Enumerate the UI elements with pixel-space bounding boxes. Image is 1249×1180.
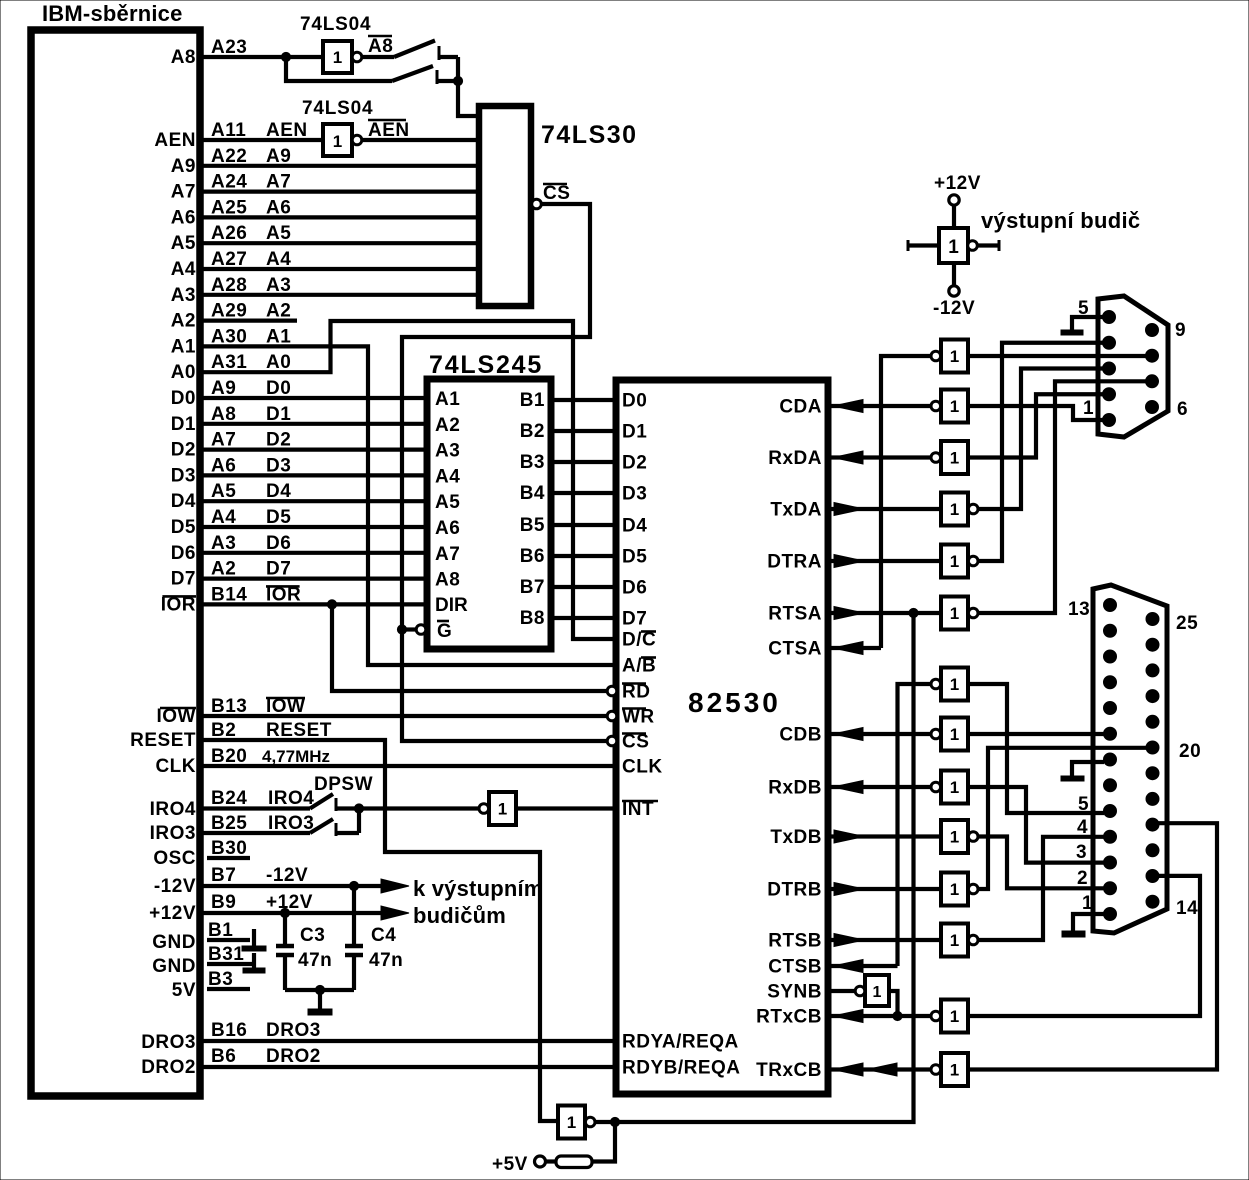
wire data from bus bbox=[203, 499, 427, 503]
wire data from bus bbox=[203, 525, 427, 529]
pin 14 DB25 bbox=[1146, 895, 1159, 908]
wire A8 from bus to inverter bbox=[203, 55, 323, 59]
wire TxDA driver to DB9 pin3 bbox=[978, 369, 1105, 510]
pin 18 DB25 bbox=[1146, 792, 1159, 805]
svg-text:74LS04: 74LS04 bbox=[302, 98, 373, 119]
label 6 bbox=[1177, 399, 1188, 420]
wire switch to 74LS30 top input bbox=[458, 57, 479, 116]
driver D11 (TxDB) bbox=[941, 820, 978, 853]
svg-text:D6: D6 bbox=[622, 578, 647, 599]
pin A/B of 82530 bbox=[622, 656, 656, 677]
driver D9 (CDB) bbox=[931, 718, 968, 751]
wire TxDB output with arrow bbox=[828, 830, 941, 843]
svg-text:47n: 47n bbox=[369, 950, 403, 971]
wire CDA input with arrow bbox=[828, 400, 930, 413]
pin row A5 bbox=[171, 223, 292, 254]
wire DRQ2 to RDYB bbox=[203, 1065, 616, 1069]
svg-text:B2: B2 bbox=[520, 421, 545, 442]
pin 1 DB25 bbox=[1104, 908, 1117, 921]
pin 13 DB25 bbox=[1104, 599, 1117, 612]
ground symbol near B31 bbox=[243, 953, 265, 973]
svg-text:D4: D4 bbox=[171, 491, 196, 512]
pin 9 DB25 bbox=[1104, 702, 1117, 715]
svg-text:A2: A2 bbox=[211, 559, 236, 580]
wire address input to 74LS30 bbox=[203, 241, 479, 245]
svg-text:výstupní budič: výstupní budič bbox=[981, 208, 1140, 233]
svg-text:B1: B1 bbox=[520, 390, 545, 411]
wire capacitor common to ground bbox=[285, 985, 354, 1015]
pin 15 DB25 bbox=[1146, 870, 1159, 883]
74LS04 inverter U1 (A8) bbox=[300, 14, 371, 73]
label 14 bbox=[1176, 898, 1198, 919]
driver U7 (bottom) bbox=[558, 1106, 595, 1139]
74LS04 inverter U2 (AEN) bbox=[302, 98, 373, 156]
svg-text:A4: A4 bbox=[266, 249, 291, 270]
svg-text:DTRA: DTRA bbox=[767, 552, 822, 573]
svg-text:20: 20 bbox=[1179, 741, 1201, 762]
svg-text:+12V: +12V bbox=[266, 892, 313, 913]
svg-text:D4: D4 bbox=[266, 481, 291, 502]
wire address input to 74LS30 bbox=[203, 215, 479, 219]
svg-text:A11: A11 bbox=[211, 120, 246, 141]
svg-text:1: 1 bbox=[950, 880, 959, 899]
wire CDA driver to DB9 pin1 bbox=[968, 406, 1105, 420]
svg-text:B31: B31 bbox=[208, 944, 244, 965]
svg-text:5V: 5V bbox=[172, 980, 196, 1001]
svg-text:DPSW: DPSW bbox=[314, 774, 373, 795]
pin row OSC (B30 stub) bbox=[153, 838, 250, 869]
svg-text:D5: D5 bbox=[171, 517, 196, 538]
svg-text:TxDB: TxDB bbox=[770, 827, 822, 848]
wire DRQ3 to RDYA bbox=[203, 1039, 616, 1043]
svg-text:A3: A3 bbox=[435, 441, 460, 462]
label pin 1 DB25 bbox=[1082, 893, 1093, 914]
wire RxDA driver to DB9 pin2 bbox=[968, 394, 1105, 457]
svg-text:A5: A5 bbox=[266, 223, 291, 244]
wire data from bus bbox=[203, 422, 427, 426]
svg-text:D5: D5 bbox=[622, 547, 647, 568]
svg-text:D6: D6 bbox=[266, 533, 291, 554]
pin D3 of 82530 bbox=[622, 484, 647, 505]
svg-text:A7: A7 bbox=[171, 182, 196, 203]
output bubble CS bbox=[532, 199, 542, 209]
wire CDB input with arrow bbox=[828, 728, 930, 741]
pin WR of 82530 bbox=[622, 707, 655, 728]
pin CDB of 82530 bbox=[779, 725, 822, 746]
driver D12 (DTRB) bbox=[941, 873, 978, 906]
svg-text:C4: C4 bbox=[371, 925, 396, 946]
pin row D3 bbox=[171, 455, 292, 486]
svg-text:A9: A9 bbox=[211, 378, 236, 399]
wire CDB driver to DB25 pin8 bbox=[968, 732, 1104, 736]
svg-text:CS: CS bbox=[543, 183, 570, 204]
svg-text:A9: A9 bbox=[171, 156, 196, 177]
svg-text:RTxCB: RTxCB bbox=[756, 1007, 822, 1028]
svg-text:A1: A1 bbox=[435, 389, 460, 410]
svg-text:A2: A2 bbox=[435, 415, 460, 436]
label 25 bbox=[1176, 613, 1198, 634]
wire CTSA input with arrow bbox=[828, 642, 881, 655]
svg-text:25: 25 bbox=[1176, 613, 1198, 634]
svg-text:1: 1 bbox=[950, 1007, 959, 1026]
wire RTSA output with arrow bbox=[828, 607, 941, 620]
pin 9 DB9 bbox=[1146, 324, 1159, 337]
pin 2 DB9 bbox=[1103, 388, 1116, 401]
svg-text:DRO2: DRO2 bbox=[141, 1057, 196, 1078]
label 13 bbox=[1068, 599, 1090, 620]
pin row A2 bbox=[171, 301, 292, 332]
svg-text:A0: A0 bbox=[171, 362, 196, 383]
svg-text:D4: D4 bbox=[622, 516, 647, 537]
wire RxDB input with arrow bbox=[828, 781, 930, 794]
svg-text:A31: A31 bbox=[211, 352, 247, 373]
svg-text:1: 1 bbox=[567, 1113, 576, 1132]
node junction pull-up bbox=[610, 1117, 619, 1126]
wire bottom driver output bbox=[594, 1120, 615, 1124]
svg-text:2: 2 bbox=[1077, 868, 1088, 889]
svg-text:budičům: budičům bbox=[413, 903, 506, 928]
label pin 5 DB25 bbox=[1078, 794, 1089, 815]
svg-text:B24: B24 bbox=[211, 788, 247, 809]
svg-text:DRO3: DRO3 bbox=[266, 1020, 321, 1041]
wire A0 net to D/C pin bbox=[203, 321, 616, 639]
switch S1a (A8-bar) bbox=[362, 41, 458, 61]
wire B5 to 82530 D4 bbox=[551, 523, 616, 527]
wire address input to 74LS30 bbox=[203, 190, 479, 194]
transceiver 74LS245 U4 bbox=[427, 379, 551, 649]
pin row A4 bbox=[171, 249, 292, 280]
pin B6 of 74LS245 bbox=[520, 546, 545, 567]
svg-text:B2: B2 bbox=[211, 720, 236, 741]
pin B7 of 74LS245 bbox=[520, 577, 545, 598]
svg-text:3: 3 bbox=[1076, 842, 1087, 863]
svg-text:A23: A23 bbox=[211, 37, 247, 58]
node junction RTSA bbox=[909, 608, 918, 617]
pin D0 of 82530 bbox=[622, 391, 647, 412]
svg-text:IRO3: IRO3 bbox=[268, 813, 314, 834]
pin RDYA/REQA of 82530 bbox=[622, 1032, 739, 1053]
svg-text:A25: A25 bbox=[211, 197, 247, 218]
driver D16 (TRxCB) bbox=[931, 1053, 968, 1086]
driver D15 (RTxCB) bbox=[931, 1000, 968, 1033]
pin 5 DB25 bbox=[1104, 805, 1117, 818]
wire DTRA output with arrow bbox=[828, 555, 941, 568]
wire data from bus bbox=[203, 551, 427, 555]
pin 11 DB25 bbox=[1104, 650, 1117, 663]
svg-text:1: 1 bbox=[950, 675, 959, 694]
pin 12 DB25 bbox=[1104, 624, 1117, 637]
svg-text:D7: D7 bbox=[171, 569, 196, 590]
svg-text:1: 1 bbox=[1082, 893, 1093, 914]
wire TxDA output with arrow bbox=[828, 503, 941, 516]
svg-text:DIR: DIR bbox=[435, 595, 468, 616]
pin A4 of 74LS245 bbox=[435, 466, 460, 487]
pin A7 of 74LS245 bbox=[435, 544, 460, 565]
svg-text:A6: A6 bbox=[266, 197, 291, 218]
pin 4 DB25 bbox=[1104, 830, 1117, 843]
wire data from bus bbox=[203, 396, 427, 400]
pin RTSB of 82530 bbox=[768, 931, 822, 952]
node junction IRQ bbox=[354, 804, 363, 813]
pin row +12V (B9) bbox=[149, 892, 313, 924]
resistor R1 bbox=[556, 1156, 592, 1168]
wire B3 to 82530 D2 bbox=[551, 460, 616, 464]
svg-text:A6: A6 bbox=[435, 518, 460, 539]
svg-text:A4: A4 bbox=[435, 466, 460, 487]
svg-text:D7: D7 bbox=[266, 559, 291, 580]
connector DB9 (CANON 9) bbox=[1098, 296, 1168, 437]
pin 25 DB25 bbox=[1146, 613, 1159, 626]
svg-text:G: G bbox=[437, 621, 452, 642]
pin row A6 bbox=[171, 197, 292, 228]
connector DB25 (CANON 25) bbox=[1093, 585, 1167, 933]
wire A1 net to A/B pin bbox=[203, 346, 616, 665]
node junction switch output bbox=[453, 76, 462, 85]
wire CTSA driver to DB9 pin8 bbox=[968, 354, 1150, 358]
svg-text:AEN: AEN bbox=[368, 120, 410, 141]
ground on DB9 pin 5 bbox=[1061, 317, 1103, 335]
svg-text:CLK: CLK bbox=[622, 757, 663, 778]
wire B1 to 82530 D0 bbox=[551, 398, 616, 402]
pin row IRQ3 bbox=[150, 813, 315, 844]
pin 10 DB25 bbox=[1104, 676, 1117, 689]
svg-text:-12V: -12V bbox=[933, 298, 975, 319]
pin A1 of 74LS245 bbox=[435, 389, 460, 410]
svg-text:CTSB: CTSB bbox=[768, 957, 822, 978]
label -12V legend bbox=[933, 298, 975, 319]
wire data from bus bbox=[203, 576, 427, 580]
wire CTSA to driver D1 bbox=[881, 356, 930, 648]
pin B4 of 74LS245 bbox=[520, 483, 545, 504]
driver D10 (RxDB) bbox=[931, 771, 968, 804]
bubble RD input bbox=[607, 686, 617, 696]
pin CTSB of 82530 bbox=[768, 957, 822, 978]
wire junction to resistor bbox=[592, 1122, 615, 1162]
svg-text:1: 1 bbox=[333, 132, 342, 151]
pin row D6 bbox=[171, 533, 292, 564]
NAND gate 74LS30 U3 bbox=[479, 106, 531, 306]
wire TRxCB driver to DB25 pin17 bbox=[968, 823, 1217, 1069]
svg-text:+12V: +12V bbox=[934, 173, 981, 194]
pin row GND (B31 stub) bbox=[152, 944, 252, 977]
svg-text:RESET: RESET bbox=[266, 720, 332, 741]
ground symbol near B1 bbox=[242, 929, 266, 951]
svg-text:A22: A22 bbox=[211, 146, 247, 167]
svg-text:CDA: CDA bbox=[779, 397, 822, 418]
pin row IOR bbox=[161, 584, 302, 615]
node junction A8 bbox=[281, 52, 290, 61]
svg-text:B7: B7 bbox=[520, 577, 545, 598]
pin row -12V (B7) bbox=[154, 865, 308, 897]
pin D/C of 82530 bbox=[622, 630, 656, 651]
driver D2 (CDA) bbox=[931, 390, 968, 423]
svg-text:RTSA: RTSA bbox=[768, 604, 822, 625]
label výstupní budič bbox=[981, 208, 1140, 233]
terminal -12V bbox=[949, 263, 959, 296]
svg-text:RESET: RESET bbox=[130, 730, 196, 751]
svg-text:D7: D7 bbox=[622, 609, 647, 630]
pin RxDB of 82530 bbox=[768, 778, 822, 799]
svg-text:D2: D2 bbox=[622, 453, 647, 474]
pin 17 DB25 bbox=[1146, 818, 1159, 831]
pin 8 DB25 bbox=[1104, 727, 1117, 740]
pin B8 of 74LS245 bbox=[520, 608, 545, 629]
svg-text:A5: A5 bbox=[435, 492, 460, 513]
IBM bus connector box bbox=[31, 30, 200, 1096]
pin row DRQ3 bbox=[141, 1020, 321, 1053]
svg-text:AEN: AEN bbox=[266, 120, 308, 141]
pin 21 DB25 bbox=[1146, 715, 1159, 728]
label k výstupním bbox=[413, 876, 544, 901]
svg-text:5: 5 bbox=[1078, 794, 1089, 815]
pin row D0 bbox=[171, 378, 292, 409]
svg-text:74LS04: 74LS04 bbox=[300, 14, 371, 35]
pin DIR of 74LS245 bbox=[435, 595, 468, 616]
wire CS-bar net to 82530 CS and 74LS245 G bbox=[402, 204, 608, 741]
svg-text:D6: D6 bbox=[171, 543, 196, 564]
wire DTRA driver to DB9 pin4 bbox=[978, 343, 1105, 561]
svg-text:1: 1 bbox=[498, 800, 507, 819]
wire TxDB driver to DB25 pin2 bbox=[978, 837, 1104, 889]
wire resistor to +5V terminal bbox=[535, 1156, 557, 1167]
svg-text:RDYA/REQA: RDYA/REQA bbox=[622, 1032, 739, 1053]
driver D8 (CTSB) bbox=[931, 668, 968, 701]
svg-text:14: 14 bbox=[1176, 898, 1198, 919]
svg-text:B6: B6 bbox=[520, 546, 545, 567]
svg-text:DRO2: DRO2 bbox=[266, 1046, 321, 1067]
svg-text:D1: D1 bbox=[171, 414, 196, 435]
pin 19 DB25 bbox=[1146, 767, 1159, 780]
label 20 bbox=[1179, 741, 1201, 762]
driver D13 (RTSB) bbox=[941, 924, 978, 957]
pin RD of 82530 bbox=[622, 682, 650, 703]
wire -12V with arrow bbox=[203, 879, 409, 893]
pin row 5V (B3 stub) bbox=[172, 969, 250, 1001]
label 82530 bbox=[688, 687, 781, 718]
pin row A9 bbox=[171, 146, 292, 177]
wire DTRB output with arrow bbox=[828, 883, 941, 896]
pin DTRA of 82530 bbox=[767, 552, 822, 573]
svg-text:A8: A8 bbox=[171, 47, 196, 68]
pin CS of 82530 bbox=[622, 732, 649, 753]
svg-text:+5V: +5V bbox=[492, 1154, 528, 1175]
label 74LS245 bbox=[429, 351, 543, 379]
pin 23 DB25 bbox=[1146, 664, 1159, 677]
svg-text:A28: A28 bbox=[211, 275, 247, 296]
svg-text:GND: GND bbox=[152, 932, 196, 953]
pin A5 of 74LS245 bbox=[435, 492, 460, 513]
pin RxDA of 82530 bbox=[768, 448, 822, 469]
wire RTSB driver to DB25 pin4 bbox=[978, 837, 1104, 940]
svg-text:A1: A1 bbox=[171, 336, 196, 357]
pin row A7 bbox=[171, 172, 292, 203]
pin 1 DB9 bbox=[1103, 414, 1116, 427]
wire data from bus bbox=[203, 448, 427, 452]
svg-text:4: 4 bbox=[1077, 817, 1088, 838]
svg-text:4,77MHz: 4,77MHz bbox=[262, 747, 330, 766]
svg-text:RTSB: RTSB bbox=[768, 931, 822, 952]
pin row IRQ4 bbox=[150, 788, 315, 820]
svg-text:B16: B16 bbox=[211, 1020, 247, 1041]
wire CTSB input with arrow bbox=[828, 960, 898, 973]
svg-text:D0: D0 bbox=[266, 378, 291, 399]
svg-text:1: 1 bbox=[873, 984, 882, 1001]
pin row A1 bbox=[171, 326, 292, 357]
wire TRxCB input with arrows bbox=[828, 1063, 930, 1076]
svg-text:1: 1 bbox=[950, 347, 959, 366]
svg-text:A9: A9 bbox=[266, 146, 291, 167]
svg-text:B3: B3 bbox=[520, 452, 545, 473]
svg-text:A1: A1 bbox=[266, 326, 291, 347]
pin D4 of 82530 bbox=[622, 516, 647, 537]
svg-text:CLK: CLK bbox=[155, 756, 196, 777]
svg-text:1: 1 bbox=[950, 552, 959, 571]
driver D8 (CTSB receiver) wire left bbox=[898, 684, 931, 966]
pin TxDA of 82530 bbox=[770, 500, 822, 521]
wire RTxCB driver to DB25 pin15 bbox=[968, 876, 1200, 1016]
wire IOW to WR bbox=[203, 711, 617, 721]
svg-text:A2: A2 bbox=[171, 311, 196, 332]
wire B7 to 82530 D6 bbox=[551, 585, 616, 589]
svg-text:13: 13 bbox=[1068, 599, 1090, 620]
svg-text:AEN: AEN bbox=[154, 130, 196, 151]
svg-text:6: 6 bbox=[1177, 399, 1188, 420]
pin CLK of 82530 bbox=[622, 757, 663, 778]
wire RTSA net down to pull-up node bbox=[615, 613, 914, 1122]
wire CLK to 82530 bbox=[203, 764, 616, 768]
svg-text:DRO3: DRO3 bbox=[141, 1032, 196, 1053]
svg-text:1: 1 bbox=[950, 828, 959, 847]
driver D5 (DTRA) bbox=[941, 545, 978, 578]
label 5 bbox=[1078, 298, 1089, 319]
svg-text:+12V: +12V bbox=[149, 903, 196, 924]
driver D1 (CTSA) bbox=[931, 340, 968, 373]
pin row D1 bbox=[171, 404, 292, 435]
pin row DRQ2 bbox=[141, 1046, 321, 1078]
svg-text:A8: A8 bbox=[368, 36, 393, 57]
svg-text:A4: A4 bbox=[211, 507, 236, 528]
wire INT driver to 82530 bbox=[516, 806, 616, 810]
wire RxDA input with arrow bbox=[828, 451, 930, 464]
pin A3 of 74LS245 bbox=[435, 441, 460, 462]
pin TxDB of 82530 bbox=[770, 827, 822, 848]
driver legend box bbox=[939, 228, 977, 263]
svg-text:RDYB/REQA: RDYB/REQA bbox=[622, 1058, 741, 1079]
svg-text:1: 1 bbox=[950, 500, 959, 519]
svg-text:1: 1 bbox=[333, 48, 342, 67]
svg-text:IRO3: IRO3 bbox=[150, 823, 196, 844]
driver U6 (INT) bbox=[479, 792, 516, 825]
svg-text:B8: B8 bbox=[520, 608, 545, 629]
pin CTSA of 82530 bbox=[768, 639, 822, 660]
label 9 bbox=[1175, 320, 1186, 341]
pin row GND (B1 stub) bbox=[152, 920, 250, 953]
svg-text:A5: A5 bbox=[211, 481, 236, 502]
driver D3 (RxDA) bbox=[931, 441, 968, 474]
wire IOR to DIR and RD bbox=[203, 604, 608, 691]
svg-text:B25: B25 bbox=[211, 813, 247, 834]
label AEN-bar bbox=[368, 120, 410, 141]
node junction RTxCB bbox=[893, 1011, 902, 1020]
pin 4 DB9 bbox=[1103, 336, 1116, 349]
label +5V bbox=[492, 1154, 528, 1175]
svg-text:A24: A24 bbox=[211, 172, 247, 193]
wire B8 to 82530 D7 bbox=[551, 616, 616, 620]
pin B3 of 74LS245 bbox=[520, 452, 545, 473]
svg-text:D1: D1 bbox=[266, 404, 291, 425]
svg-text:A6: A6 bbox=[211, 455, 236, 476]
svg-text:1: 1 bbox=[950, 397, 959, 416]
